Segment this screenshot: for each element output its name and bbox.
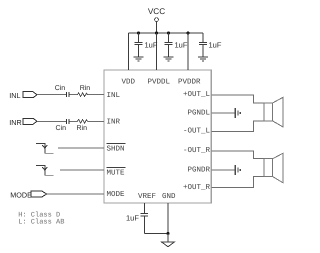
- svg-text:PVDDR: PVDDR: [178, 79, 201, 87]
- svg-text:Cin: Cin: [55, 84, 66, 92]
- svg-text:Rin: Rin: [77, 124, 88, 132]
- svg-text:1uF: 1uF: [126, 213, 139, 222]
- svg-text:MODE: MODE: [10, 190, 32, 199]
- svg-text:Cin: Cin: [56, 124, 67, 132]
- svg-text:VREF: VREF: [138, 193, 156, 201]
- svg-text:GND: GND: [162, 192, 176, 201]
- svg-text:-OUT_R: -OUT_R: [183, 146, 211, 155]
- svg-text:L: Class AB: L: Class AB: [18, 217, 64, 226]
- svg-text:PVDDL: PVDDL: [148, 79, 171, 87]
- svg-text:+OUT_R: +OUT_R: [183, 183, 211, 192]
- svg-text:INR: INR: [9, 118, 21, 127]
- svg-text:VDD: VDD: [122, 79, 136, 87]
- svg-text:MODE: MODE: [107, 190, 126, 199]
- svg-text:INL: INL: [107, 92, 121, 100]
- svg-text:MUTE: MUTE: [107, 169, 126, 177]
- svg-text:PGNDR: PGNDR: [187, 166, 210, 175]
- svg-text:-OUT_L: -OUT_L: [183, 126, 211, 135]
- svg-text:PGNDL: PGNDL: [187, 108, 210, 117]
- svg-text:Rin: Rin: [80, 84, 91, 92]
- svg-text:INL: INL: [9, 91, 20, 100]
- svg-text:1uF: 1uF: [175, 41, 188, 50]
- svg-text:VCC: VCC: [148, 7, 165, 16]
- svg-text:+OUT_L: +OUT_L: [183, 90, 211, 99]
- svg-text:SHDN: SHDN: [107, 145, 125, 154]
- svg-text:1uF: 1uF: [209, 41, 222, 50]
- svg-text:1uF: 1uF: [145, 41, 158, 50]
- svg-text:INR: INR: [107, 119, 121, 127]
